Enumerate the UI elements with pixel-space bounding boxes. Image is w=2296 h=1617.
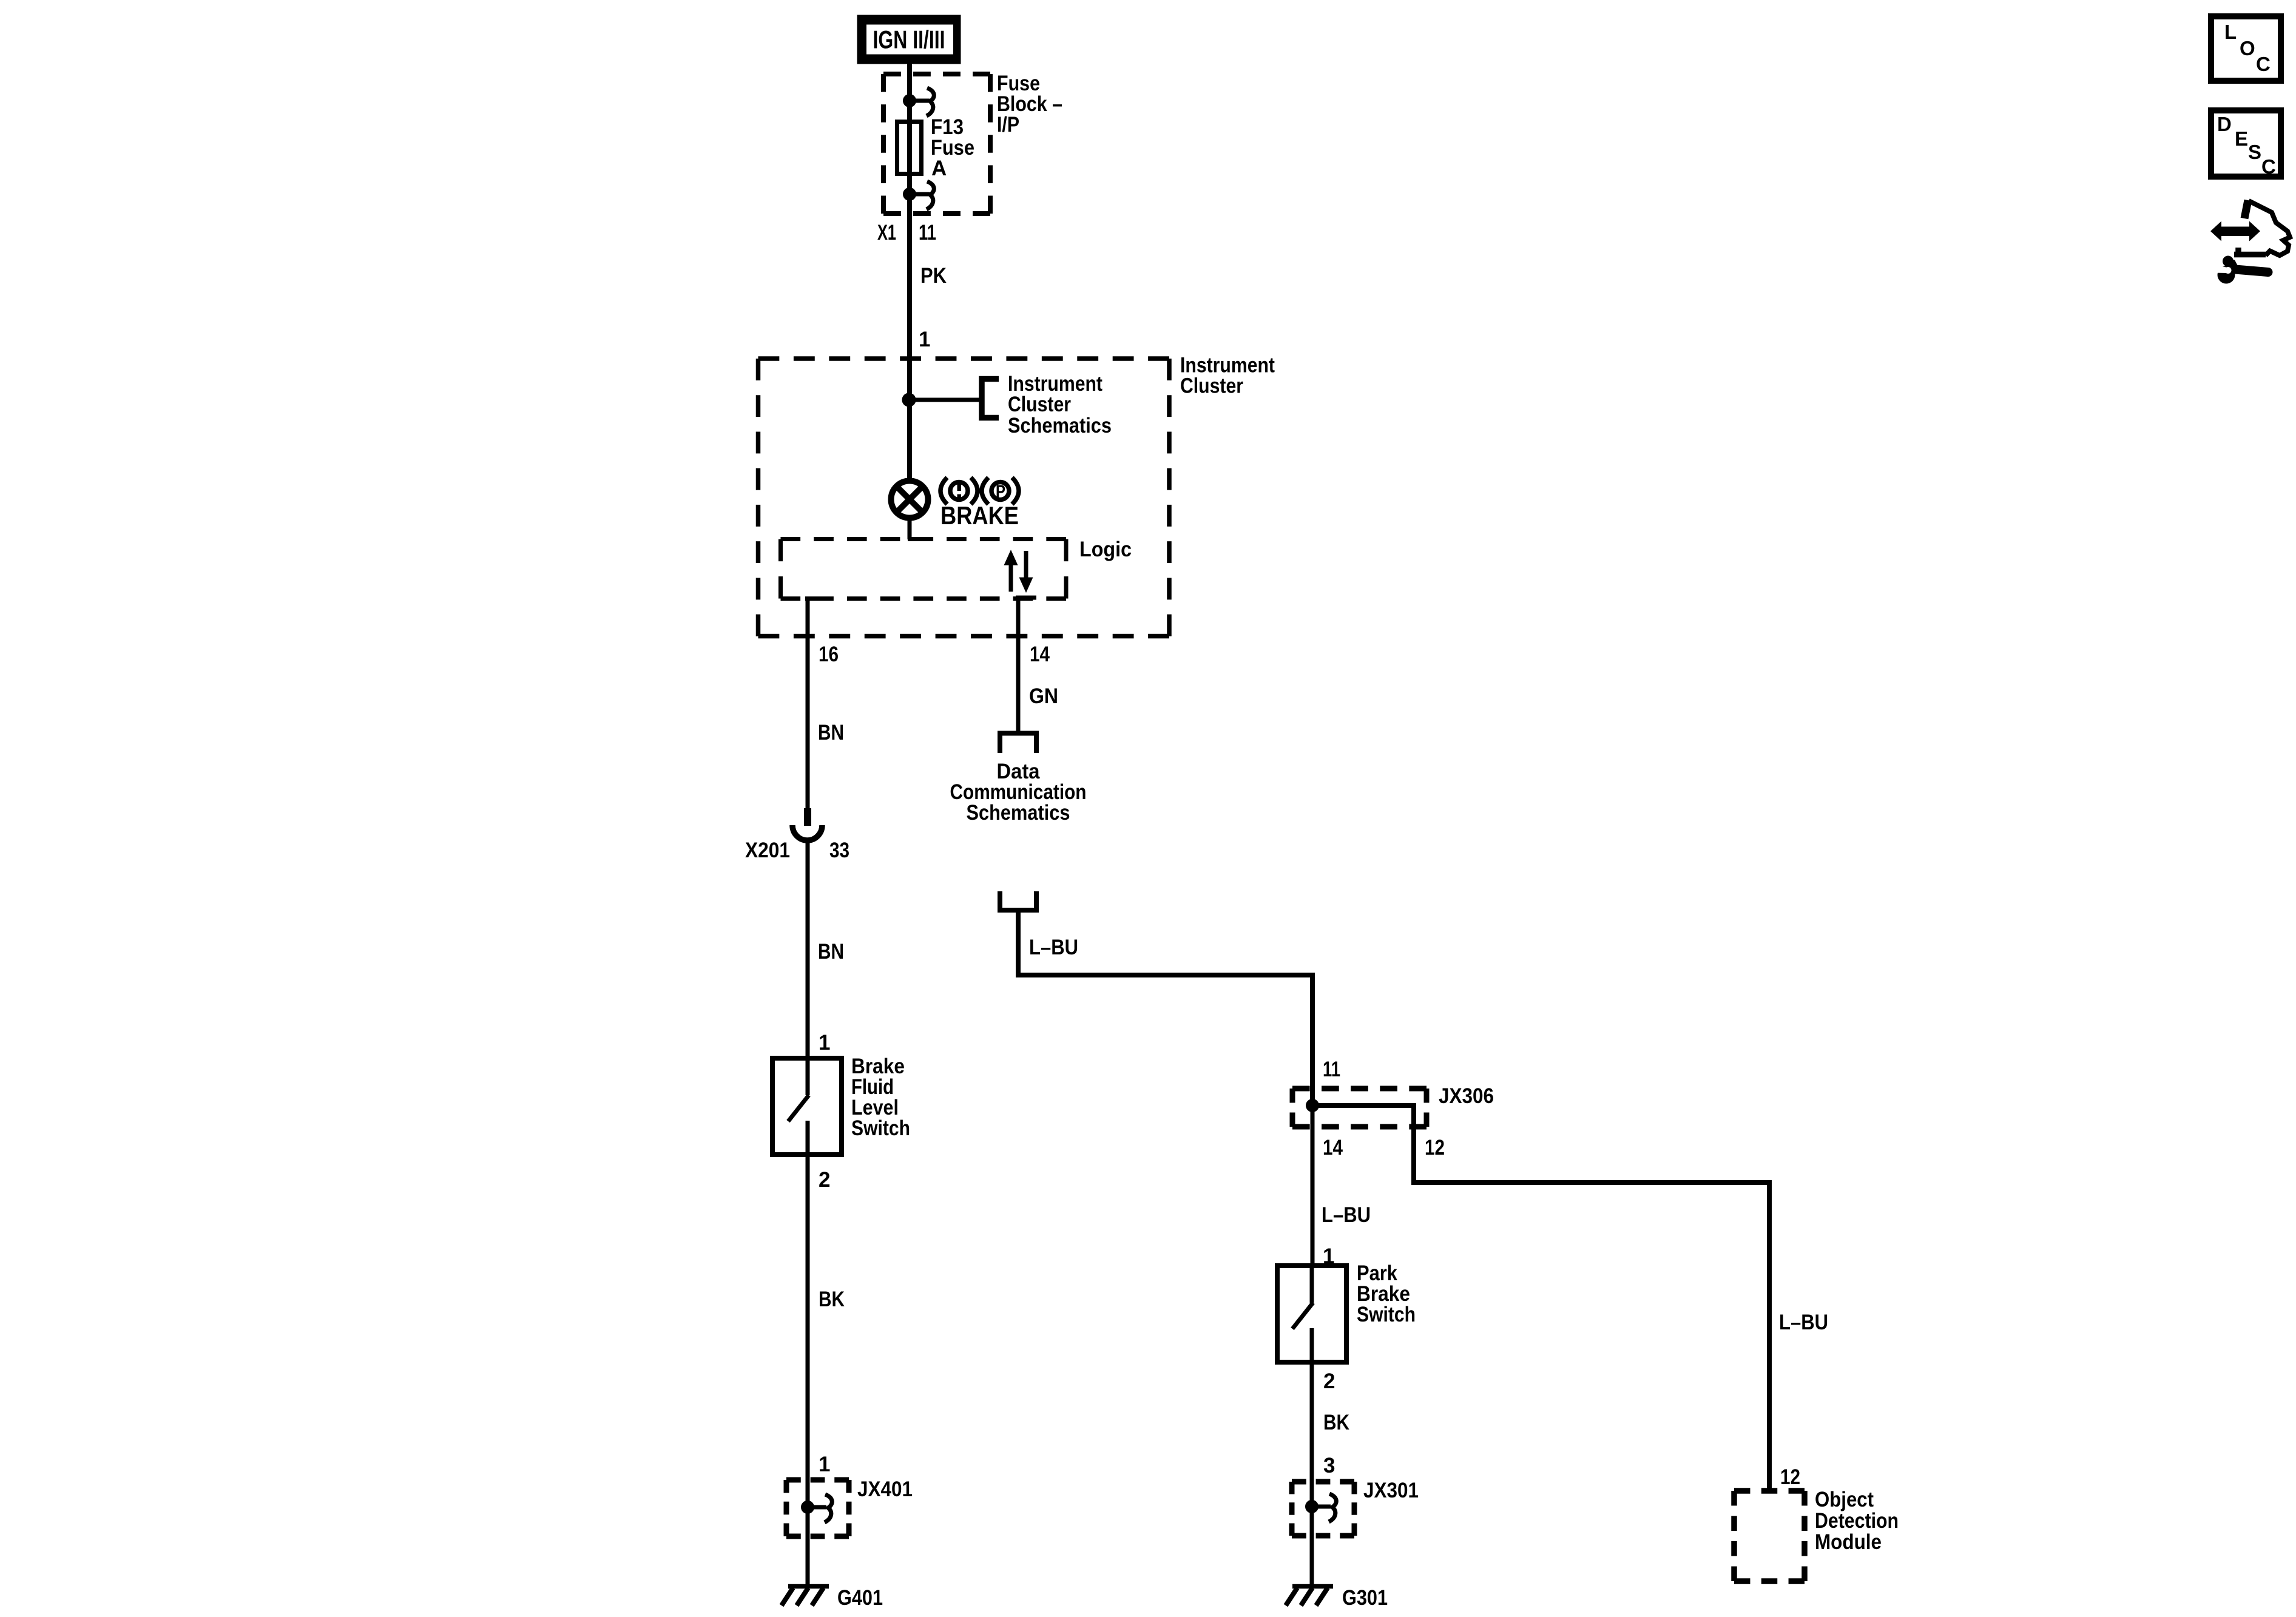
svg-text:BN: BN bbox=[818, 721, 844, 744]
svg-text:11: 11 bbox=[1323, 1058, 1340, 1081]
svg-text:O: O bbox=[2240, 37, 2255, 59]
svg-text:C: C bbox=[2261, 155, 2276, 178]
svg-text:GN: GN bbox=[1029, 684, 1058, 708]
svg-text:BK: BK bbox=[1323, 1411, 1349, 1434]
splice dot and clip in JX401 bbox=[802, 1494, 832, 1522]
label: Object Detection Module bbox=[1815, 1488, 1899, 1554]
indicator lamp BRAKE (circle with X) bbox=[891, 481, 928, 518]
fuse F13 element bbox=[897, 101, 922, 194]
wire: BK from switch to JX401 and ground bbox=[806, 1155, 810, 1587]
svg-text:IGN II/III: IGN II/III bbox=[873, 25, 945, 54]
svg-text:Schematics: Schematics bbox=[1008, 414, 1112, 437]
svg-text:Detection: Detection bbox=[1815, 1509, 1899, 1533]
svg-text:Module: Module bbox=[1815, 1530, 1882, 1554]
wire: node to BRAKE lamp bbox=[907, 400, 912, 481]
instrument cluster dashed box bbox=[758, 359, 1170, 636]
label: Park Brake Switch bbox=[1357, 1261, 1416, 1326]
splice dot and clip in JX301 bbox=[1306, 1494, 1337, 1522]
svg-text:1: 1 bbox=[919, 328, 930, 351]
svg-text:1: 1 bbox=[819, 1453, 830, 1476]
label: connector X1 pin 11 bbox=[877, 221, 936, 245]
LOC legend box bbox=[2211, 16, 2281, 81]
connector X201 pin 33 (inline connector) bbox=[792, 808, 822, 840]
svg-text:12: 12 bbox=[1425, 1136, 1445, 1160]
junction block JX306 dashed box bbox=[1292, 1089, 1427, 1127]
svg-text:BRAKE: BRAKE bbox=[940, 501, 1019, 530]
svg-text:16: 16 bbox=[819, 643, 839, 666]
svg-text:Switch: Switch bbox=[851, 1116, 910, 1140]
bracket: instrument cluster schematics reference bbox=[982, 379, 999, 418]
label: X201 / 33 bbox=[745, 839, 849, 862]
svg-text:JX301: JX301 bbox=[1363, 1479, 1419, 1502]
wire: BK from park brake switch to JX301 and ground bbox=[1310, 1362, 1314, 1587]
ground G401 bbox=[782, 1587, 829, 1606]
label: Brake Fluid Level Switch bbox=[851, 1055, 910, 1140]
svg-text:11: 11 bbox=[919, 221, 936, 245]
power tag IGN II/III bbox=[857, 15, 961, 64]
logic dashed box bbox=[781, 539, 1067, 599]
wire: logic pin 14 (GN) down to data link bbox=[1016, 598, 1036, 733]
svg-text:C: C bbox=[2256, 53, 2271, 75]
label: Instrument Cluster Schematics bbox=[1008, 372, 1112, 437]
svg-text:P: P bbox=[996, 482, 1005, 502]
svg-text:G401: G401 bbox=[837, 1586, 883, 1610]
svg-text:BN: BN bbox=[818, 940, 844, 964]
junction dot JX306 bbox=[1306, 1099, 1319, 1112]
svg-text:JX401: JX401 bbox=[857, 1477, 913, 1501]
ground G301 bbox=[1286, 1587, 1333, 1606]
park brake switch bbox=[1277, 1266, 1346, 1362]
svg-text:Object: Object bbox=[1815, 1488, 1874, 1511]
icon: brake warning ((!)) bbox=[940, 478, 977, 504]
svg-text:12: 12 bbox=[1780, 1465, 1800, 1489]
svg-text:33: 33 bbox=[829, 839, 849, 862]
wire: PK from fuse to instrument cluster pin 1 bbox=[907, 194, 912, 400]
svg-text:L: L bbox=[2224, 21, 2237, 43]
svg-text:Switch: Switch bbox=[1357, 1303, 1416, 1326]
svg-text:X201: X201 bbox=[745, 839, 790, 862]
svg-text:Cluster: Cluster bbox=[1180, 374, 1243, 398]
wire: branch to cluster schematics bracket bbox=[909, 398, 982, 402]
off-page connector: to data communication schematics bbox=[1000, 734, 1036, 754]
svg-text:L–BU: L–BU bbox=[1029, 936, 1078, 959]
svg-text:A: A bbox=[931, 157, 947, 180]
svg-text:PK: PK bbox=[920, 264, 947, 288]
fuse clip terminal (upper) bbox=[910, 88, 934, 116]
junction dot: fuse F13 input bbox=[903, 95, 916, 107]
svg-text:2: 2 bbox=[1323, 1369, 1335, 1393]
icon: park brake ((P)) bbox=[982, 478, 1019, 504]
svg-text:Schematics: Schematics bbox=[967, 801, 1070, 825]
svg-text:S: S bbox=[2248, 141, 2261, 163]
svg-text:1: 1 bbox=[819, 1031, 830, 1055]
wire: BN from X201 to brake fluid level switch bbox=[806, 841, 810, 1061]
svg-text:14: 14 bbox=[1030, 643, 1050, 666]
object detection module dashed box bbox=[1734, 1491, 1805, 1581]
svg-text:Logic: Logic bbox=[1079, 538, 1132, 561]
arrows: logic serial data I/O bbox=[1004, 550, 1033, 593]
svg-text:2: 2 bbox=[819, 1168, 830, 1192]
wire: L-BU from off-page connector to JX306 pin 11 bbox=[1018, 910, 1312, 1108]
label: F13 Fuse A bbox=[931, 115, 974, 180]
off-page connector: L-BU feed bbox=[1000, 891, 1036, 910]
junction dot: fuse F13 output bbox=[903, 188, 916, 201]
svg-text:D: D bbox=[2217, 113, 2232, 135]
svg-text:G301: G301 bbox=[1342, 1586, 1388, 1610]
junction block JX301 dashed box bbox=[1292, 1482, 1354, 1536]
wire: ignition feed into fuse block bbox=[907, 62, 912, 103]
junction node inside cluster bbox=[902, 393, 916, 407]
svg-text:Cluster: Cluster bbox=[1008, 393, 1071, 416]
brake fluid level switch bbox=[772, 1058, 842, 1155]
wire: lamp to logic box bbox=[908, 518, 932, 539]
svg-text:L–BU: L–BU bbox=[1779, 1311, 1828, 1334]
svg-text:3: 3 bbox=[1323, 1454, 1335, 1477]
label: Instrument Cluster (box name) bbox=[1180, 354, 1275, 398]
label: Data Communication Schematics bbox=[950, 760, 1087, 825]
wire: logic pin 16 (BN) down to X201 bbox=[805, 599, 826, 811]
svg-text:L–BU: L–BU bbox=[1322, 1203, 1371, 1227]
svg-text:E: E bbox=[2235, 127, 2248, 150]
fuse clip terminal (lower) bbox=[910, 181, 934, 209]
svg-text:JX306: JX306 bbox=[1439, 1084, 1494, 1108]
svg-text:I/P: I/P bbox=[997, 113, 1019, 137]
DESC legend box bbox=[2211, 110, 2281, 178]
wire: L-BU from JX306 to park brake switch bbox=[1311, 1106, 1315, 1268]
svg-text:X1: X1 bbox=[877, 221, 896, 245]
diagnostic icon: double arrow, connector outline, wrench bbox=[2210, 200, 2290, 284]
junction block JX401 dashed box bbox=[786, 1480, 849, 1536]
wire: JX306 pin 12 branch to object detection module bbox=[1312, 1106, 1769, 1491]
fuse block dashed box (Fuse Block - I/P) bbox=[883, 74, 990, 214]
svg-text:BK: BK bbox=[819, 1288, 845, 1311]
label: Fuse Block - I/P bbox=[997, 72, 1062, 137]
svg-text:14: 14 bbox=[1323, 1136, 1343, 1160]
